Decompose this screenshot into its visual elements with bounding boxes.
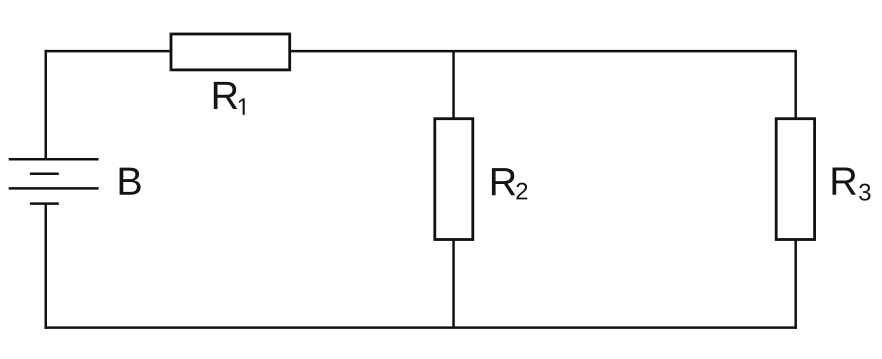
- resistor R1 (horizontal box): [171, 34, 290, 70]
- wire bottom-left segment (battery - to node below R2): [45, 326, 454, 329]
- wire top-middle segment (R1 right lead to node above R2): [291, 50, 454, 53]
- wire top-left segment (battery + up and over to R1 left lead): [45, 50, 170, 53]
- wire bottom-right segment (node below R2 to bottom of R3 branch): [454, 326, 797, 329]
- label R2: letter R: [492, 168, 515, 195]
- wire R2 top lead: [452, 51, 455, 119]
- label B (battery): [120, 168, 141, 195]
- label R3: subscript 3: [859, 184, 870, 201]
- label R1: letter R: [214, 82, 237, 109]
- label R2: subscript 2: [516, 183, 527, 200]
- wire top-right segment (node above R2 to top of R3 branch): [454, 50, 797, 53]
- resistor R3 (vertical box): [776, 119, 814, 240]
- wire R3 bottom lead: [794, 240, 797, 329]
- wire left vertical lower (battery bottom plate down to bottom wire): [45, 204, 48, 329]
- wire R3 top lead: [794, 51, 797, 119]
- battery B: bottom short plate: [30, 202, 59, 205]
- resistor R2 (vertical box): [435, 119, 473, 240]
- wire left vertical upper (top wire down to battery top plate): [45, 50, 48, 159]
- battery B: top long plate: [9, 158, 99, 161]
- label R1: subscript 1: [239, 98, 245, 115]
- battery B: lower long plate: [9, 187, 99, 190]
- wire R2 bottom lead: [452, 240, 455, 328]
- label R3: letter R: [833, 168, 856, 195]
- battery B: upper short plate: [30, 172, 59, 175]
